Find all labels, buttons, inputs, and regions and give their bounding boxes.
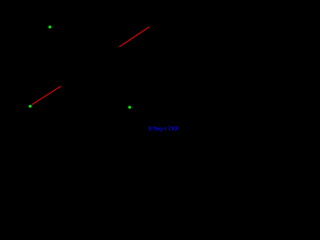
svg-text:X fmy / 7XX: X fmy / 7XX <box>148 126 179 132</box>
